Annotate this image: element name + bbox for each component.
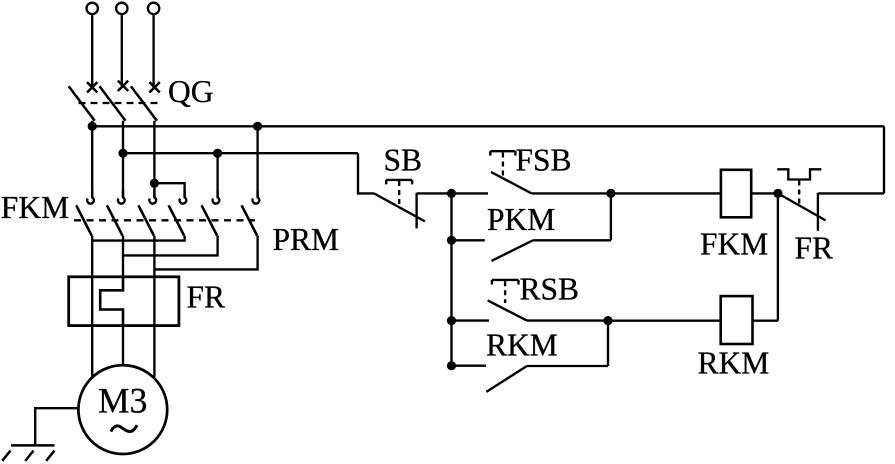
- svg-text:FR: FR: [795, 231, 834, 266]
- svg-text:RSB: RSB: [520, 272, 580, 307]
- svg-text:PRM: PRM: [273, 222, 340, 257]
- svg-text:SB: SB: [384, 142, 423, 177]
- svg-text:FSB: FSB: [516, 142, 572, 177]
- svg-text:RKM: RKM: [698, 346, 770, 381]
- svg-text:QG: QG: [168, 74, 214, 109]
- svg-text:FR: FR: [187, 280, 226, 315]
- svg-text:FKM: FKM: [1, 190, 69, 225]
- svg-text:RKM: RKM: [486, 328, 558, 363]
- svg-text:M3: M3: [98, 380, 147, 420]
- svg-text:PKM: PKM: [487, 202, 555, 237]
- svg-text:FKM: FKM: [700, 227, 768, 262]
